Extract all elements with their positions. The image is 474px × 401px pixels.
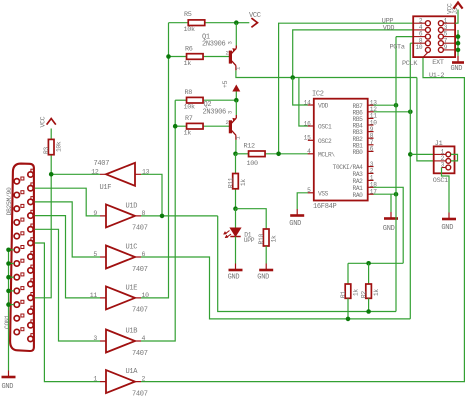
svg-text:5: 5 [307,187,311,194]
wire CON1 pin10 up to R3 junction [35,174,51,297]
svg-text:U1-2: U1-2 [429,72,444,80]
wire U1D output data line [141,215,218,217]
resistor R12 body [249,151,265,157]
svg-text:GND: GND [257,273,269,281]
wire U1F input from feedback vertical [141,174,162,216]
wire CON1 pin4 to U1E input [35,216,100,298]
svg-text:3: 3 [227,41,234,44]
resistor R10 body [263,229,269,246]
op-amp buffer U1B 7407 triangle [106,330,135,353]
op-amp buffer U1E 7407 triangle [106,286,135,309]
J3 pin stubs [413,23,455,57]
connector J3 body [413,16,455,57]
svg-text:U1D: U1D [126,202,138,210]
op-amp buffer U1A 7407 triangle [106,370,135,393]
resistor R5 body [188,20,205,26]
junction R2 bottom on data rail [366,309,371,314]
svg-text:OSC2: OSC2 [318,138,332,145]
svg-text:16F84P: 16F84P [313,203,337,211]
wire J3.6 horizontal stub [396,36,413,38]
buffer U1F pin stubs [100,173,141,175]
svg-text:PGTa: PGTa [390,44,405,52]
wire R12 right lead to MCLR [265,153,308,155]
wire R11 top lead [235,154,237,174]
wire CON1 pin3 to U1C input [35,202,100,257]
junction on ground rail y=304.6 [6,302,11,307]
svg-text:GND: GND [2,383,14,391]
wire J3 pin1 to VCC [455,10,458,24]
wire UPP net J3.2 to MCLR node [279,23,413,154]
ground symbol below VSS [290,214,304,217]
wire CON1 pin6 to U1A input [35,243,100,382]
wire PGTa horizontal stub [410,42,413,44]
wire RB6 to J3.8 vertical [374,111,411,113]
buffer U1C pin stubs [100,256,141,258]
power VCC arrow above R3 [47,119,56,125]
svg-text:R12: R12 [244,143,256,151]
junction J3 ground pin y=36.6 [456,34,461,39]
svg-text:R2: R2 [361,291,368,298]
ground symbol below R10 [259,269,273,272]
svg-text:VSS: VSS [318,190,329,197]
resistor R7 body [187,123,204,129]
svg-text:R10: R10 [258,234,265,245]
junction R2 top on rail [366,261,371,266]
wire R11 bottom lead [235,189,237,209]
svg-text:U1B: U1B [126,327,138,335]
wire OSC1 to VDD line [299,78,308,127]
resistor R8 body [187,97,204,103]
svg-text:10k: 10k [56,141,63,152]
svg-text:10k: 10k [184,26,196,34]
svg-text:U1E: U1E [126,284,138,292]
wire VDD net J3.4 down [293,30,413,78]
svg-text:GND: GND [289,220,301,228]
svg-text:9: 9 [444,44,448,51]
CON1 left column pins 14-25 [14,177,24,335]
svg-text:IC2: IC2 [312,90,324,98]
wire U1C output clock line [141,257,410,319]
wire U1E output to R5/R6 vertical [141,23,169,298]
junction on ground rail y=290.9 [6,289,11,294]
junction on ground rail y=249.8 [6,248,11,253]
svg-text:R11: R11 [227,177,234,188]
junction R11 / D1 / R10 [233,206,238,211]
svg-text:GND: GND [228,273,240,281]
svg-text:OSC1: OSC1 [318,124,332,131]
wire R6 right lead to Q1 base [203,56,230,58]
svg-text:16: 16 [304,120,311,127]
wire R3 bottom lead to junction [50,155,52,175]
svg-text:1k: 1k [352,289,359,296]
junction UPP joins MCLR line [276,152,281,157]
svg-text:7407: 7407 [132,266,148,274]
junction J3 ground pin y=49.9 [456,48,461,53]
buffer U1A pin stubs [100,381,141,383]
CON1 right column pins 1-13 [28,169,34,341]
wire R1 bottom to H2 [347,298,349,319]
IC2 left pin stubs [308,105,314,193]
wire CON1 ground pin stub y=290.9 [9,290,15,292]
wire R1 top lead [347,263,349,284]
svg-text:PCLK: PCLK [402,60,418,68]
svg-text:7407: 7407 [94,160,110,168]
wire node to R10 top [236,209,267,229]
wire R7 left lead [175,125,186,127]
svg-text:2: 2 [225,50,228,57]
transistor Q2 2N3906 PNP [230,115,236,140]
svg-text:15: 15 [304,135,311,142]
svg-text:100: 100 [247,160,259,168]
ground symbol below RA0 [384,217,398,220]
buffer U1D pin stubs [100,215,141,217]
svg-text:7407: 7407 [132,390,148,398]
junction R1 bottom on clock rail [346,317,351,322]
svg-text:R3: R3 [43,147,50,154]
wire R2 top lead [368,263,370,284]
resistor R1 body [345,284,351,298]
svg-text:GND: GND [383,225,395,233]
wire VSS to GND [297,193,308,209]
ground symbol below J1 [442,218,456,221]
J1 pin pads [446,152,451,170]
junction RB7 / J3.6 line [394,103,399,108]
wire R2 bottom to H1 [368,298,370,311]
svg-text:RA0: RA0 [353,192,364,199]
wire U1B output to R8/R7 vertical [141,100,175,341]
LED D1 [224,228,241,238]
wire CON1 pin2 to U1D input [35,188,100,216]
wire ground rail left of CON1 [8,250,10,371]
svg-text:2N3906: 2N3906 [202,41,226,49]
ground symbol below CON1 [2,376,16,379]
connector J1 oscillator body [434,146,455,173]
wire R12 left lead [236,153,249,155]
svg-text:7407: 7407 [132,307,148,315]
svg-text:2N3906: 2N3906 [203,108,227,116]
resistor R2 body [366,284,372,298]
svg-text:1k: 1k [240,179,247,186]
wire R6 left lead [169,56,187,58]
wire RA0 row [374,193,397,195]
wire J3 ground rail [457,30,459,56]
wire CON1 pin5 to U1B input [35,229,100,341]
svg-text:4: 4 [307,148,311,155]
wire CON1 ground pin stub y=277.2 [9,276,15,278]
svg-text:VCC: VCC [249,12,261,20]
junction R8 / +5 / Q2 emitter [234,98,239,103]
wire R7 right lead to Q2 base [203,125,230,127]
wire R8 left lead [175,99,186,101]
wire Q2 collector to R12/R11 node [235,140,237,154]
svg-text:U1F: U1F [100,184,112,192]
wire Q1 emitter stem [235,23,237,46]
wire VDD branch to IC2 pin 14 [293,78,308,106]
junction R8/R7 left vertical [173,124,178,129]
junction VDD line / Q1 collector line [290,75,295,80]
IC2 right pin stubs [368,105,374,194]
buffer U1B pin stubs [100,340,141,342]
svg-text:EXT: EXT [432,59,444,67]
wire U1A output bottom line PCLK [141,57,464,382]
wire RB7 to J3.6 vertical [374,104,397,106]
svg-text:U1A: U1A [126,368,139,376]
svg-text:10: 10 [415,44,422,51]
wire RA0 drop to GND [390,194,392,212]
op-amp buffer U1C 7407 triangle [106,246,135,269]
wire RA1 rail over resistors [348,262,403,264]
svg-text:R8: R8 [185,89,193,97]
op-amp buffer U1F 7407 triangle [106,163,135,186]
connector CON1 DB25 shell [10,164,34,351]
wire R3 top lead to VCC [50,129,52,140]
IC IC2 16F84P body [314,99,368,201]
junction node R3 / U1F.12 / pin10 [49,172,54,177]
junction RA0 / J3.6 line [394,192,399,197]
junction Q2 collector / R12 / R11 [233,152,238,157]
svg-text:1k: 1k [184,60,192,68]
svg-text:R1: R1 [340,291,347,298]
J1 pin stubs [434,154,446,167]
wire D1 anode [235,209,237,228]
wire R5 right lead to VCC node [205,22,237,24]
svg-text:CON1: CON1 [4,315,11,329]
resistor R6 body [187,54,204,60]
junction J1 pin1 tap [408,152,413,157]
svg-text:RB0: RB0 [353,149,364,156]
svg-text:3: 3 [227,111,234,114]
svg-text:1k: 1k [184,130,192,138]
buffer U1E pin stubs [100,297,141,299]
wire Q1 collector down along VDD line [236,70,417,77]
svg-text:GND: GND [451,65,463,73]
power VCC arrow at J3 [453,3,462,9]
junction R5/R6 left vertical [166,54,171,59]
svg-text:7407: 7407 [132,225,148,233]
svg-text:RA3: RA3 [353,171,364,178]
svg-text:+5: +5 [222,80,229,88]
wire J1 pin3 to GND [442,168,450,213]
svg-text:1k: 1k [271,235,278,242]
svg-text:14: 14 [304,99,311,106]
junction on ground rail y=277.2 [6,275,11,280]
svg-text:2: 2 [225,119,228,126]
wire CON1 ground pin stub y=263.5 [9,263,15,265]
wire RA1 to resistor rail [374,187,404,263]
wire CON1 ground pin stub y=249.8 [9,249,15,251]
wire R5 left lead [169,22,189,24]
wire VCC node to arrow [236,22,249,24]
svg-text:1k: 1k [373,289,380,296]
svg-text:R6: R6 [185,45,193,53]
wire D1 cathode to GND [235,237,237,264]
svg-text:VCC: VCC [40,116,47,127]
wire CON1 ground pin stub y=304.6 [9,304,15,306]
ground symbol EXT at J3 [452,61,464,64]
wire J3.8 / RB6 / J1.1 vertical [409,43,411,319]
wire U1F output to R3 junction [51,173,100,175]
junction on ground rail y=263.5 [6,261,11,266]
svg-text:J1: J1 [435,140,443,148]
wire Q2 emitter stem [235,100,237,115]
wire +5 stem to node [235,92,237,101]
wire data line down to H1 rail [218,216,396,312]
wire J1 pins 1-2 bracket [451,154,458,161]
power +5 arrow [232,85,240,92]
junction J3 ground pin y=43.2 [456,41,461,46]
resistor R11 body [233,174,239,189]
svg-text:2: 2 [370,168,374,175]
wire VDD line to J1 pin2 [417,78,434,161]
svg-text:7407: 7407 [132,350,148,358]
svg-text:DB25M/90: DB25M/90 [6,187,13,215]
svg-text:VCC: VCC [447,3,454,14]
svg-text:R7: R7 [185,115,193,123]
svg-text:UPP: UPP [244,237,255,244]
wire R8 right lead to +5 node [203,99,236,101]
junction VCC / R5 / Q1 emitter [234,20,239,25]
wire to J1 pin1 [410,153,433,155]
svg-text:MCLR\: MCLR\ [318,151,335,158]
svg-text:6: 6 [370,146,374,153]
junction U1D out / U1F in [160,214,165,219]
svg-text:VDD: VDD [383,24,395,32]
resistor R3 body [48,139,54,154]
J3 left column pin pads [425,21,430,53]
wire R10 bottom to GND [265,246,267,264]
svg-text:GND: GND [441,224,453,232]
svg-text:U1C: U1C [126,243,138,251]
svg-text:OSC1: OSC1 [433,177,448,185]
junction RB6 / J3.8 line [408,110,413,115]
J3 right column pin pads [438,21,443,53]
wire J3.6 / PCLK vertical [395,37,397,312]
svg-text:R5: R5 [184,11,192,19]
svg-text:VDD: VDD [318,103,329,110]
svg-text:10k: 10k [184,104,196,112]
transistor Q1 2N3906 PNP [230,46,237,71]
power VCC arrow top center [251,18,257,27]
op-amp buffer U1D 7407 triangle [106,204,135,227]
ground symbol below D1 [229,269,243,272]
